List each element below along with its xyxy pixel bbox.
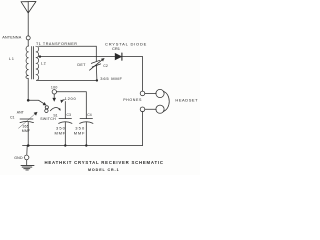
capacitor C1 (ANT variable) (19, 112, 38, 145)
transformer core (32, 47, 34, 80)
arrow 1200 to switch (61, 100, 65, 103)
node C3 rail junction (64, 144, 66, 146)
wire tuned bottom rail L2 to C2 (36, 79, 97, 81)
wire top rail L2 tap to diode (39, 56, 115, 58)
headset plug bottom (156, 105, 164, 113)
antenna (21, 2, 36, 14)
svg-text:CR1: CR1 (112, 46, 121, 51)
svg-text:PHONES: PHONES (123, 98, 142, 102)
wire ground bottom rail (23, 145, 143, 147)
wire L1 bottom to junction (27, 78, 29, 100)
wire antenna lead (27, 13, 29, 36)
svg-text:ANTENNA: ANTENNA (2, 36, 22, 40)
switch S1 wiper arrowhead (43, 102, 46, 105)
svg-text:C4: C4 (87, 113, 91, 117)
svg-text:1200: 1200 (65, 96, 77, 101)
wire antenna to L1 (27, 40, 29, 46)
crystal diode CR1 (115, 53, 122, 60)
svg-text:MMF: MMF (55, 130, 66, 135)
wire right vertical to phones (142, 57, 144, 92)
svg-text:GND: GND (14, 156, 23, 160)
svg-text:MODEL CR-1: MODEL CR-1 (88, 168, 120, 172)
arrow from 100 terminal down (53, 94, 55, 101)
label 350 MMF (C4 value) (74, 125, 85, 135)
wire rail to phones bottom (142, 112, 144, 146)
node ANTENNA terminal (26, 36, 30, 40)
capacitor C2 (DET variable) (90, 58, 105, 80)
svg-text:C1: C1 (10, 116, 15, 120)
svg-text:ANT: ANT (17, 110, 25, 114)
switch S1 rotation arc (50, 107, 59, 110)
wire phones bottom to plug (145, 108, 156, 110)
wire diode to right corner (122, 56, 142, 58)
svg-text:L 2: L 2 (41, 62, 46, 66)
node GND terminal (24, 155, 29, 160)
svg-text:MMF: MMF (74, 130, 85, 135)
wire GND drop (26, 146, 28, 156)
label 350 MMF (C3 value) (55, 125, 66, 135)
capacitor C3 (59, 119, 72, 146)
node C2 bottom junction (96, 79, 98, 81)
svg-text:DET: DET (77, 63, 86, 67)
svg-text:MMF: MMF (22, 129, 31, 133)
wire C3 top lead (64, 102, 66, 119)
node phones bottom terminal (140, 107, 145, 112)
headset cord arc (163, 91, 169, 111)
svg-text:365 MMF: 365 MMF (100, 76, 123, 81)
ground (21, 160, 34, 170)
switch S1 contacts (45, 106, 49, 113)
svg-text:C2: C2 (103, 64, 108, 68)
svg-text:C3: C3 (67, 113, 71, 117)
node switch feed junction (27, 99, 30, 102)
inductor L1 (26, 46, 29, 78)
svg-text:100: 100 (51, 85, 58, 89)
wire phones top to plug (145, 92, 156, 94)
node switch top terminal (52, 90, 56, 94)
svg-text:HEADSET: HEADSET (175, 97, 198, 102)
inductor L2 (36, 46, 39, 80)
label 365 MMF (C1 value) (22, 125, 31, 133)
svg-text:SWITCH: SWITCH (40, 117, 56, 121)
wire L2 top to C2 (39, 46, 97, 61)
wire 100 terminal to C4 (57, 92, 87, 119)
svg-text:L 1: L 1 (9, 57, 14, 61)
node rail-left junction (27, 144, 30, 147)
node C4 rail junction (85, 144, 87, 146)
svg-text:T1 TRANSFORMER: T1 TRANSFORMER (36, 42, 77, 46)
svg-text:HEATHKIT CRYSTAL RECEIVER SCHE: HEATHKIT CRYSTAL RECEIVER SCHEMATIC (45, 160, 164, 165)
headset plug top (156, 89, 164, 97)
node phones top terminal (140, 91, 145, 96)
wire junction to switch wiper (28, 100, 44, 104)
node L2 tap junction (39, 55, 41, 57)
capacitor C4 (80, 119, 93, 146)
